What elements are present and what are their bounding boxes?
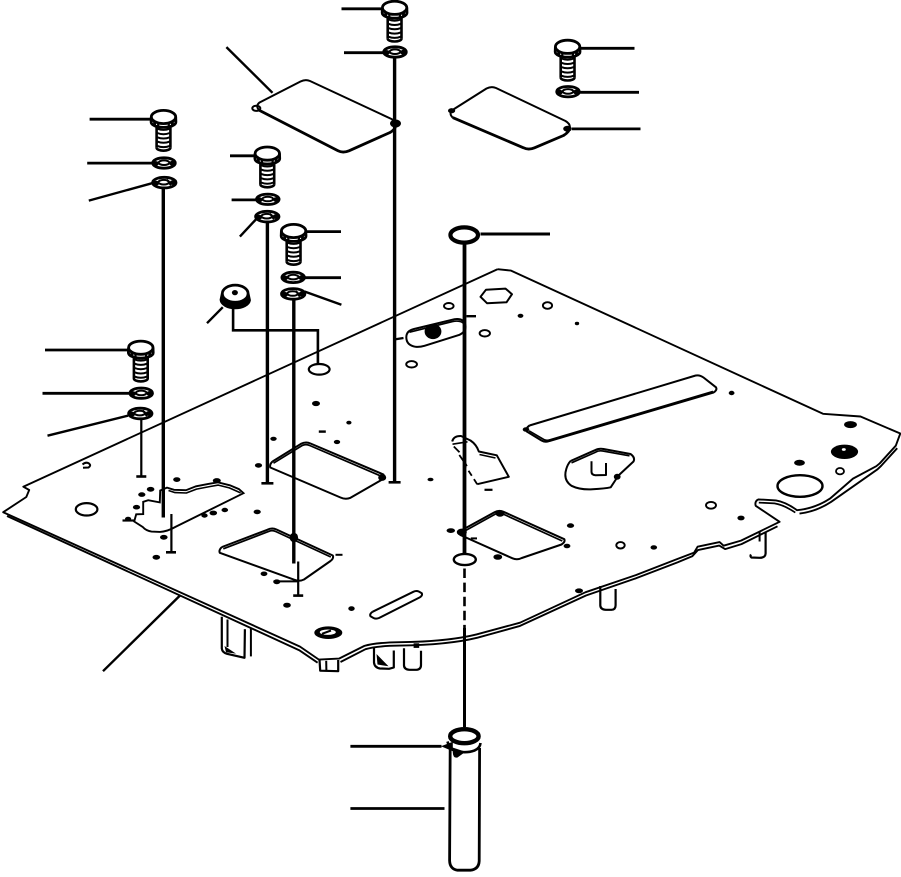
- lock washer L3 under B3: [153, 177, 176, 188]
- dash at CU3 left: [471, 537, 477, 539]
- leader line to bolt B3: [90, 118, 152, 121]
- plate thickness line (bottom right): [800, 448, 898, 513]
- end tick of B4 shaft: [261, 482, 273, 485]
- dark mark on edge at leg B: [414, 643, 420, 648]
- bent callout line from knob K1 to plate hole: [233, 303, 318, 365]
- leader line to cylinder cap: [350, 745, 441, 748]
- leader line to washer W5: [305, 276, 342, 279]
- cutout CU2 (rounded parallelogram): [219, 528, 333, 580]
- boot-shaped cutout BC1: [565, 449, 634, 490]
- B3 hidden shaft continuation: [170, 514, 172, 552]
- cap centreline to cylinder (solid): [463, 628, 466, 727]
- plate thickness line (notch): [759, 503, 796, 513]
- leader line to bolt B6: [45, 349, 129, 352]
- small slot SL2: [370, 591, 422, 619]
- leader line to lock washer L5: [305, 292, 342, 305]
- plate bottom thickness line (left): [7, 516, 318, 663]
- leader line to bolt B2: [580, 47, 635, 50]
- leader line to knob K1: [207, 307, 223, 323]
- leader line to washer W1: [344, 51, 384, 54]
- washer W2 under B2: [557, 87, 580, 97]
- dash hole mark: [319, 430, 326, 432]
- plate bottom thickness line (tip and right): [341, 526, 778, 662]
- hex hole H1: [481, 289, 513, 304]
- cylinder body: [450, 744, 480, 870]
- lock washer L6 under B6: [129, 408, 152, 419]
- dashed pocket DS1: [452, 436, 509, 490]
- leg B under bottom tip: [404, 648, 421, 670]
- small open holes on plate: [406, 302, 716, 548]
- left edge ellipse hole: [76, 503, 98, 515]
- end tick of B6 shaft: [136, 475, 146, 478]
- s-shaped tick on plate left: [83, 463, 91, 468]
- B5 hidden shaft continuation: [297, 562, 299, 596]
- dark blob where B5 shaft crosses cutout rim: [290, 533, 298, 543]
- small hole dots on plate: [125, 314, 745, 611]
- bolt B2 (top right): [555, 40, 580, 80]
- bolt B6 centreline shaft: [140, 419, 142, 476]
- cap centreline hidden (dashed): [463, 569, 466, 629]
- end tick of B1 shaft: [389, 481, 401, 484]
- filled dot right upper: [844, 421, 857, 428]
- cutout CU3 (rounded parallelogram): [457, 510, 565, 560]
- bent tab at bottom tip: [320, 660, 339, 672]
- tick near CU2 bottom: [274, 580, 298, 582]
- bolt B4 (middle): [255, 147, 280, 187]
- main floor plate outline: [3, 269, 900, 659]
- bolt B5 (mid right): [281, 224, 306, 264]
- leader line to washer W2: [580, 91, 639, 94]
- leader line to lock washer L4: [240, 219, 257, 237]
- grommet hole G1: [314, 626, 342, 639]
- leg channel mid right: [600, 586, 615, 610]
- leader line to plate P2: [572, 127, 641, 130]
- oval access hole OC1 with bolt visible: [406, 319, 465, 347]
- leader line to plate P1: [226, 47, 272, 93]
- bolt B6 (lower left): [128, 341, 153, 381]
- lock washer L5 under B5: [282, 289, 305, 300]
- bolt B5 centreline shaft: [292, 300, 295, 564]
- bolt B4 centreline shaft: [266, 222, 269, 483]
- washer W1 under B1: [384, 47, 407, 57]
- dark blob where shaft passes plate P1 hole: [390, 120, 401, 128]
- leader line to bolt B4: [230, 154, 256, 157]
- cylinder cap: [448, 729, 481, 757]
- cap C1 centreline (solid): [463, 244, 467, 554]
- bolt B3 (left): [151, 110, 176, 150]
- washer W6 under B6: [130, 388, 153, 398]
- end tick of B3 shaft: [166, 551, 176, 554]
- filled oval right: [831, 445, 858, 459]
- cutout CU1 (rounded parallelogram): [270, 443, 386, 499]
- small ring right: [836, 468, 844, 474]
- washer W5 under B5: [282, 272, 305, 282]
- leader line to bolt B5: [306, 230, 341, 233]
- cover plate P1: [252, 80, 396, 152]
- leg under right notch: [751, 532, 766, 558]
- washer W4 under B4: [257, 194, 280, 204]
- leg channel lower-left: [222, 617, 251, 658]
- hole ellipse big right: [778, 475, 823, 497]
- leader line to cylinder body: [350, 807, 444, 810]
- bolt B1 centreline shaft: [393, 58, 396, 482]
- leader line to washer W3: [87, 162, 152, 165]
- leader line to lock washer L6: [48, 416, 129, 436]
- knob K1 (rubber plug): [221, 285, 250, 308]
- tick beside cap centreline: [467, 315, 477, 317]
- leader line to bolt B1: [342, 7, 383, 10]
- end tick of B5 shaft: [293, 594, 303, 597]
- washer W3 under B3: [153, 158, 176, 168]
- tick left of BR1: [123, 519, 135, 521]
- leg A under bottom tip: [374, 648, 394, 669]
- plug hole ellipse on plate: [309, 364, 330, 375]
- filled dot right lower: [794, 460, 805, 466]
- bracket cutout BR1: [134, 482, 243, 532]
- leader line to washer W4: [232, 198, 257, 201]
- leader line to plate lower-left edge: [103, 596, 180, 672]
- round cap C1: [450, 227, 478, 242]
- dash near CU2 right corner: [336, 554, 343, 556]
- cover plate P2: [448, 87, 572, 149]
- leader line to cap C1: [481, 233, 551, 236]
- tick on B1 shaft: [394, 338, 404, 340]
- hole ellipse E2 under cap: [454, 554, 476, 565]
- arrowhead on cylinder leader: [441, 742, 453, 751]
- bolt B1 (top centre): [382, 1, 407, 41]
- bolt B3 centreline shaft: [162, 188, 165, 518]
- lock washer L4 under B4: [256, 211, 279, 222]
- leader line to washer W6: [43, 392, 130, 395]
- large slanted slot SL1: [526, 375, 716, 441]
- leader line to lock washer L3: [89, 183, 154, 201]
